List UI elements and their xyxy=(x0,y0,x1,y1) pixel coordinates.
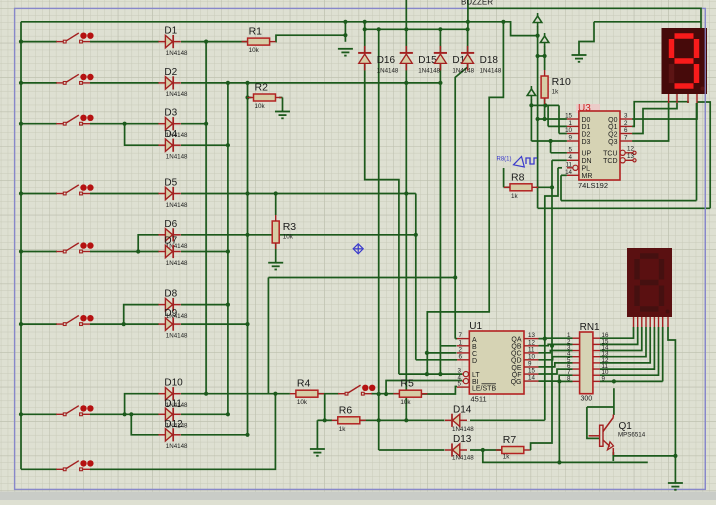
svg-text:U3: U3 xyxy=(578,103,591,114)
diode D2 xyxy=(158,76,180,89)
svg-text:1N4148: 1N4148 xyxy=(418,68,440,75)
wire R6 line to D14 xyxy=(406,419,444,421)
resistor R6 xyxy=(332,417,366,424)
svg-text:11: 11 xyxy=(566,161,573,168)
wire U1 output 4 to RN1 xyxy=(539,357,573,360)
svg-text:1N4148: 1N4148 xyxy=(452,454,474,461)
svg-text:13: 13 xyxy=(627,153,634,160)
junction xyxy=(136,249,140,253)
svg-text:R3: R3 xyxy=(283,221,297,233)
diode D14 xyxy=(445,414,467,427)
svg-text:TCD: TCD xyxy=(603,158,617,165)
RN1 pin 16 xyxy=(593,337,600,339)
wire collector return xyxy=(483,450,648,462)
display 2 pins xyxy=(634,317,669,327)
junction xyxy=(226,249,230,253)
wire U3.MR drop xyxy=(560,175,562,200)
diode D7 xyxy=(158,245,180,258)
U3 pin 3 Q0 xyxy=(620,118,632,120)
svg-text:D12: D12 xyxy=(164,419,183,430)
wire U1.C stub xyxy=(427,352,456,354)
probe R8(1) xyxy=(497,157,538,168)
svg-text:D18: D18 xyxy=(480,55,499,66)
wire row1 to D1 xyxy=(90,41,159,43)
svg-text:D10: D10 xyxy=(164,378,183,389)
U3 pin 15 D0 xyxy=(567,118,579,120)
wire row5 D7 east xyxy=(181,251,228,253)
resistor R2 xyxy=(248,94,282,101)
wire R10 bottom xyxy=(544,98,546,105)
wire branch to D10 xyxy=(125,394,159,415)
svg-text:9: 9 xyxy=(602,375,606,382)
svg-text:D7: D7 xyxy=(164,236,177,247)
junction xyxy=(404,27,408,31)
power arrow 2 xyxy=(540,33,548,47)
svg-text:Q3: Q3 xyxy=(608,139,617,146)
ground R3 xyxy=(268,263,283,270)
junction xyxy=(466,20,470,24)
junction xyxy=(543,54,547,58)
U1 pin 14 QG xyxy=(524,380,539,382)
svg-text:D16: D16 xyxy=(377,55,396,66)
svg-text:QB: QB xyxy=(511,344,521,351)
svg-text:D1: D1 xyxy=(582,124,591,131)
junction xyxy=(363,27,367,31)
junction xyxy=(226,412,230,416)
wire R10 node xyxy=(531,104,559,106)
junction xyxy=(414,233,418,237)
wire outside border riser xyxy=(697,102,710,208)
wire power to R10 xyxy=(544,46,546,70)
wire row2 left xyxy=(21,82,57,84)
svg-text:R6: R6 xyxy=(339,404,353,416)
resistor R8 xyxy=(504,184,538,191)
U3 pin 1 D1 xyxy=(567,125,579,127)
svg-text:D: D xyxy=(472,358,477,365)
U1 pin 3 LT xyxy=(462,372,469,377)
junction xyxy=(425,351,429,355)
wire bus to D18 xyxy=(467,29,469,53)
junction xyxy=(122,322,126,326)
wire U3.Q2 to display xyxy=(632,103,677,134)
svg-text:15: 15 xyxy=(565,113,572,120)
svg-text:D8: D8 xyxy=(164,289,177,300)
wire loop under U3 xyxy=(538,207,711,209)
ground Q1 xyxy=(668,483,683,490)
wire top rail xyxy=(21,21,503,23)
switch SW5 xyxy=(56,242,93,253)
svg-text:6: 6 xyxy=(624,127,628,134)
power arrow 3 xyxy=(527,86,535,100)
svg-text:300: 300 xyxy=(581,396,593,403)
switch SW4 xyxy=(56,184,93,195)
wire row4 left xyxy=(21,193,57,195)
U1 pin 12 QB xyxy=(524,345,539,347)
svg-text:8: 8 xyxy=(567,375,571,382)
svg-text:12: 12 xyxy=(528,339,535,346)
wire buzzer pin 1 xyxy=(405,0,407,29)
svg-text:7: 7 xyxy=(624,135,628,142)
RN1 pin 1 xyxy=(573,337,580,339)
svg-text:14: 14 xyxy=(565,169,572,176)
wire R7 right xyxy=(529,449,532,451)
wire feed to U1.C xyxy=(427,22,503,374)
junction xyxy=(550,185,554,189)
U3 pin 14 MR xyxy=(567,174,579,176)
wire RN1 pin 9 line xyxy=(600,380,663,382)
wire branch to D12 xyxy=(131,414,159,435)
wire R4 node down xyxy=(324,394,326,421)
wire U3.UP stub xyxy=(551,152,567,154)
svg-text:3: 3 xyxy=(458,368,462,375)
svg-text:10: 10 xyxy=(528,353,535,360)
wire frame to bus xyxy=(364,22,366,30)
ground R2 xyxy=(275,112,290,119)
svg-text:R2: R2 xyxy=(255,82,269,94)
svg-text:12: 12 xyxy=(627,145,634,152)
switch SW9 xyxy=(338,385,375,396)
svg-text:Q2: Q2 xyxy=(608,131,617,138)
resistor R4 xyxy=(290,390,324,397)
RN1 pin 6 xyxy=(573,368,580,370)
wire row3 left xyxy=(21,123,57,125)
RN1 pin 10 xyxy=(593,374,600,376)
IC U1 4511 xyxy=(469,331,524,394)
U3 pin 10 D2 xyxy=(567,133,579,135)
wire switch to R5 xyxy=(371,393,399,395)
RN1 pin 2 xyxy=(573,343,580,345)
wire R4 to switch xyxy=(318,393,340,395)
wire D6 east xyxy=(181,234,416,236)
junction xyxy=(536,34,540,38)
svg-text:1N4148: 1N4148 xyxy=(452,68,474,75)
junction xyxy=(543,103,547,107)
svg-text:RN1: RN1 xyxy=(580,322,600,333)
wire rail jog to power xyxy=(503,22,537,36)
wire R5 to U1.LE xyxy=(420,387,457,395)
wire top right rail xyxy=(594,21,701,23)
ground R6 xyxy=(310,449,325,456)
wire to ground right xyxy=(674,456,676,483)
wire D16 column to LT xyxy=(365,63,399,374)
svg-text:1N4148: 1N4148 xyxy=(166,154,188,161)
7-segment display display 2 blank xyxy=(627,248,672,317)
diode D5 xyxy=(158,187,180,200)
svg-text:4: 4 xyxy=(569,154,573,161)
wire RN1 pin 8 xyxy=(559,380,572,382)
svg-text:Q1: Q1 xyxy=(608,124,617,131)
junction xyxy=(384,392,388,396)
wire to ground xyxy=(579,22,594,55)
svg-text:1N4148: 1N4148 xyxy=(377,68,399,75)
wire R2 east xyxy=(279,97,283,99)
resistor R10 xyxy=(541,70,548,104)
svg-text:10k: 10k xyxy=(283,234,294,241)
svg-text:1: 1 xyxy=(459,339,463,346)
wire R3 to ground xyxy=(275,243,277,263)
RN1 pin 4 xyxy=(573,356,580,358)
wire bus to D17 xyxy=(439,29,441,53)
ground U3 xyxy=(572,55,587,62)
U3 pin 12 TCU xyxy=(620,150,636,155)
junction xyxy=(129,412,133,416)
diode D13 xyxy=(445,443,467,456)
diode D12 xyxy=(158,428,180,441)
wire display2 seg 2 to RN1 xyxy=(600,327,638,344)
wire D17 column xyxy=(439,63,441,374)
junction xyxy=(226,143,230,147)
diode D10 xyxy=(158,387,180,400)
U3 pin 9 D3 xyxy=(567,140,579,142)
junction xyxy=(19,322,23,326)
junction xyxy=(557,379,561,383)
junction xyxy=(438,81,442,85)
svg-text:U1: U1 xyxy=(469,321,482,332)
RN1 pin 15 xyxy=(593,343,600,345)
wire R10 to D0 xyxy=(544,105,546,119)
junction xyxy=(245,433,249,437)
svg-text:5: 5 xyxy=(458,381,462,388)
svg-text:R5: R5 xyxy=(400,378,414,390)
svg-text:R8: R8 xyxy=(511,171,525,183)
junction xyxy=(404,418,408,422)
svg-text:10k: 10k xyxy=(255,103,266,110)
wire display2 seg 4 to RN1 xyxy=(600,327,646,357)
U3 pin 7 Q3 xyxy=(620,140,632,142)
svg-text:R4: R4 xyxy=(297,378,311,390)
wire display2 seg 5 to RN1 xyxy=(600,327,650,363)
junction xyxy=(438,372,442,376)
svg-text:4511: 4511 xyxy=(471,394,487,403)
junction xyxy=(425,372,429,376)
wire R1 east xyxy=(276,35,346,41)
RN1 pin 5 xyxy=(573,362,580,364)
svg-text:10k: 10k xyxy=(400,399,411,406)
U1 pin 5 LE/STB xyxy=(457,386,469,388)
wire diode bus xyxy=(365,28,468,30)
junction xyxy=(550,344,554,348)
RN1 pin 7 xyxy=(573,374,580,376)
RN1 pin 9 xyxy=(593,380,600,382)
junction xyxy=(245,95,249,99)
diode D3 xyxy=(158,117,180,130)
junction xyxy=(274,191,278,195)
wire R6 ground drop xyxy=(316,420,318,449)
svg-text:A: A xyxy=(472,337,477,344)
wire row4 to D5 xyxy=(90,193,159,195)
wire row8 left xyxy=(21,468,57,470)
wire row5 to D7 xyxy=(90,251,159,253)
wire column B xyxy=(227,83,229,414)
svg-text:1k: 1k xyxy=(339,426,347,433)
svg-text:13: 13 xyxy=(528,332,535,339)
wire R8 right xyxy=(536,186,552,188)
wire U3.D3 stub xyxy=(531,140,567,142)
wire branch to D6 xyxy=(138,235,159,252)
svg-text:9: 9 xyxy=(569,135,573,142)
resistor R1 xyxy=(242,38,276,45)
svg-text:LT: LT xyxy=(472,372,480,379)
switch SW2 xyxy=(56,74,93,85)
junction xyxy=(123,122,127,126)
wire display2 seg 3 to RN1 xyxy=(600,327,642,351)
svg-text:QF: QF xyxy=(512,372,522,379)
cursor marker xyxy=(353,244,363,254)
svg-text:9: 9 xyxy=(528,361,532,368)
IC U3 74LS192 xyxy=(576,104,620,180)
wire row7 to D11 xyxy=(90,413,159,415)
wire U3.Q1 to display xyxy=(632,102,688,127)
junction xyxy=(204,40,208,44)
wire bus to D16 xyxy=(364,29,366,53)
junction xyxy=(245,81,249,85)
wire row3 D3 east xyxy=(181,123,206,125)
wire R6 east xyxy=(360,419,406,421)
wire to Q1 base xyxy=(587,407,600,438)
junction xyxy=(453,275,457,279)
wire display2 seg 1 to RN1 xyxy=(600,327,634,338)
RN1 pin 13 xyxy=(593,356,600,358)
svg-text:2: 2 xyxy=(624,120,628,127)
svg-text:Q0: Q0 xyxy=(608,117,617,124)
wire to R6 ground xyxy=(317,419,324,421)
junction xyxy=(557,460,561,464)
wire branch to D8 xyxy=(124,305,159,325)
wire jog xyxy=(587,406,614,408)
wire branch to UP xyxy=(550,141,552,153)
svg-text:3: 3 xyxy=(624,113,628,120)
diode D17 xyxy=(434,46,447,71)
junction xyxy=(438,27,442,31)
junction xyxy=(501,20,505,24)
svg-text:1N4148: 1N4148 xyxy=(166,202,188,209)
switch SW1 xyxy=(56,33,93,44)
svg-text:R8(1): R8(1) xyxy=(497,157,512,163)
ground R1 xyxy=(338,49,353,56)
wire U3.Q0 to display xyxy=(632,103,697,119)
svg-text:1N4148: 1N4148 xyxy=(166,260,188,267)
wire U3.DN to R7 xyxy=(531,160,552,450)
junction xyxy=(549,139,553,143)
wire column A xyxy=(205,42,207,394)
wire RN1 pin 8 down xyxy=(558,381,560,462)
RN1 pin 14 xyxy=(593,350,600,352)
svg-text:1k: 1k xyxy=(503,454,511,461)
U1 pin 10 QD xyxy=(524,359,539,361)
resistor R3 xyxy=(272,215,279,249)
junction xyxy=(19,40,23,44)
junction xyxy=(273,392,277,396)
svg-text:D3: D3 xyxy=(582,139,591,146)
svg-text:MPS6514: MPS6514 xyxy=(618,432,646,439)
svg-text:LE/STB: LE/STB xyxy=(472,386,496,393)
U1 pin 2 C xyxy=(457,352,469,354)
wire riser R1-ground xyxy=(344,22,346,42)
svg-text:D2: D2 xyxy=(582,131,591,138)
wire row1 left xyxy=(21,41,57,43)
wire display2 dp down xyxy=(668,327,675,456)
wire row6 left xyxy=(21,323,57,325)
svg-text:10: 10 xyxy=(565,127,572,134)
switch SW6 xyxy=(56,315,93,326)
junction xyxy=(377,392,381,396)
wire power column xyxy=(537,26,539,208)
RN1 pin 12 xyxy=(593,362,600,364)
junction xyxy=(245,191,249,195)
svg-text:QE: QE xyxy=(511,365,521,372)
wire row2 to D2 xyxy=(90,82,159,84)
wire D10 east to R4 xyxy=(181,393,290,395)
U1 pin 6 D xyxy=(457,359,469,361)
wire D8 east xyxy=(181,304,228,306)
RN1 pin 11 xyxy=(593,368,600,370)
wire MR riser to display xyxy=(696,103,698,201)
resistor R5 xyxy=(393,390,427,397)
svg-text:D13: D13 xyxy=(453,434,472,445)
transistor Q1 MPS6514 xyxy=(589,415,614,456)
RN1 pin 8 xyxy=(573,380,580,382)
junction xyxy=(323,418,327,422)
svg-text:7: 7 xyxy=(459,332,463,339)
junction xyxy=(481,448,485,452)
junction xyxy=(377,418,381,422)
wire row2 D2 east xyxy=(181,82,440,84)
power arrow 1 xyxy=(533,13,541,27)
svg-text:R7: R7 xyxy=(503,434,517,446)
resistor R7 xyxy=(496,447,530,454)
svg-text:D0: D0 xyxy=(582,117,591,124)
diode D18 xyxy=(461,46,474,71)
junction xyxy=(404,81,408,85)
bottom band xyxy=(0,492,716,501)
wire D4 east xyxy=(181,144,228,146)
svg-text:74LS192: 74LS192 xyxy=(578,181,608,190)
wire bus to D15 xyxy=(405,29,407,53)
wire row3 to D3 xyxy=(90,123,159,125)
wire row5 left xyxy=(21,251,57,253)
wire row8 riser to D10 line xyxy=(90,394,275,470)
diode D9 xyxy=(158,318,180,331)
7-segment display display 1 digit 9 xyxy=(662,28,708,94)
wire U1 output 2 to RN1 xyxy=(539,344,573,345)
junction xyxy=(204,392,208,396)
junction xyxy=(19,249,23,253)
wire U3.DN stub xyxy=(552,159,567,161)
svg-text:TCU: TCU xyxy=(603,151,617,158)
svg-text:QD: QD xyxy=(511,358,522,365)
svg-text:QG: QG xyxy=(511,379,522,386)
junction xyxy=(19,412,23,416)
wire arrow3 to D3 row xyxy=(530,99,532,141)
svg-text:BUZZER: BUZZER xyxy=(461,0,493,7)
RN1 pin 3 xyxy=(573,350,580,352)
svg-text:R1: R1 xyxy=(249,26,263,38)
wire column D xyxy=(267,278,269,394)
junction xyxy=(377,27,381,31)
diode D15 xyxy=(400,46,413,71)
junction xyxy=(404,191,408,195)
junction xyxy=(19,191,23,195)
U3 pin 6 Q2 xyxy=(620,133,632,135)
U3 pin 4 DN xyxy=(567,159,579,161)
svg-text:15: 15 xyxy=(528,368,535,375)
svg-text:1: 1 xyxy=(569,120,573,127)
svg-text:1N4148: 1N4148 xyxy=(166,332,188,339)
switch SW7 xyxy=(56,405,93,416)
junction xyxy=(245,322,249,326)
svg-text:5: 5 xyxy=(569,146,573,153)
junction xyxy=(466,27,470,31)
